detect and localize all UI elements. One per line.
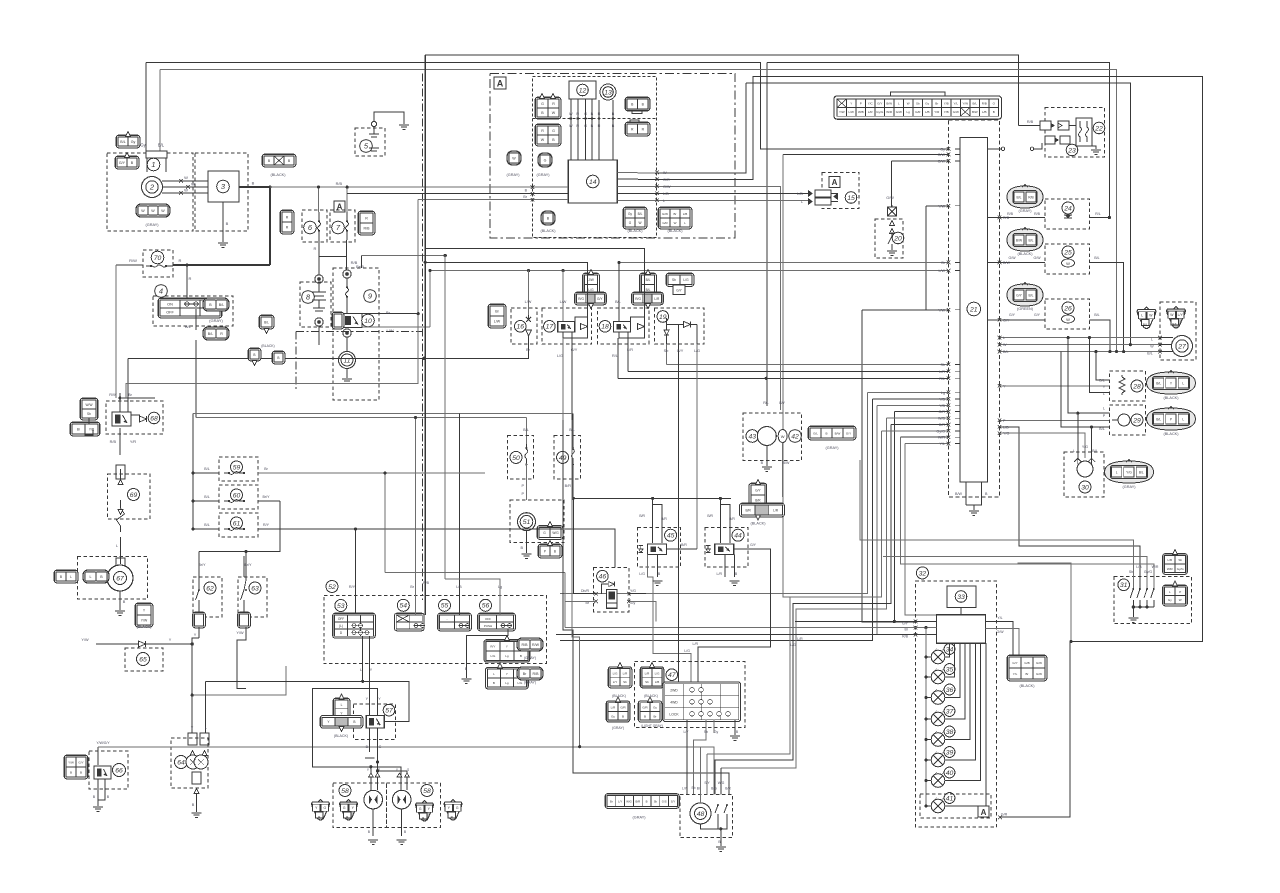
connector hl inner L	[340, 800, 358, 821]
term Y ecuR	[998, 384, 1002, 388]
svg-text:Y/G: Y/G	[1126, 471, 1132, 475]
lamp number 34	[944, 644, 955, 655]
term G/W rowR	[655, 185, 659, 189]
wire comp6 down	[318, 240, 320, 275]
wire W/B row	[886, 417, 948, 419]
capacitor element	[318, 283, 320, 292]
svg-text:20: 20	[893, 235, 902, 242]
term Y/L ecu	[947, 442, 951, 446]
svg-text:R: R	[189, 276, 192, 281]
bullet conn b	[315, 318, 323, 326]
svg-text:L: L	[801, 200, 803, 204]
connector 47 gray1	[606, 701, 630, 722]
wire 22 link	[1069, 125, 1076, 127]
wire BR bus	[573, 497, 731, 499]
dashed box comp66	[89, 751, 128, 789]
joint connector 17	[583, 273, 600, 296]
svg-text:26: 26	[1063, 305, 1072, 312]
dashed box comp27	[1160, 302, 1196, 360]
wire 66 gnd a	[97, 779, 99, 806]
term 46d	[627, 600, 631, 604]
wire Br row14	[418, 199, 568, 201]
svg-text:B/L: B/L	[1147, 352, 1152, 356]
wire 44 B	[734, 554, 736, 577]
wire 12 B	[591, 99, 593, 160]
wire 69 out	[120, 537, 122, 564]
dashed box comp30	[1064, 452, 1104, 497]
relay 45 box	[648, 544, 667, 554]
svg-text:L/B: L/B	[456, 585, 462, 589]
junction Br 10	[417, 312, 420, 315]
comp22 plug a	[1040, 121, 1051, 130]
wire R comp70 out	[173, 264, 270, 266]
fuse wiggle 69	[117, 500, 125, 532]
lamp number 39	[944, 747, 955, 758]
svg-text:60: 60	[233, 492, 241, 499]
wire RY row2	[258, 529, 615, 567]
svg-text:A: A	[981, 808, 987, 817]
svg-text:L/W: L/W	[938, 269, 945, 273]
pin Gy/G ecu	[955, 430, 960, 432]
junction Y 65	[191, 642, 194, 645]
comp48 motor	[690, 803, 711, 824]
svg-text:Gy: Gy	[628, 212, 632, 216]
wire BrY row	[199, 555, 244, 557]
junction R node	[268, 186, 271, 189]
svg-text:P: P	[860, 102, 862, 106]
svg-text:Y/W: Y/W	[938, 204, 945, 208]
wire aux 695 line	[192, 666, 286, 695]
pin Y/W ecu	[955, 205, 960, 207]
arrow 51	[548, 522, 553, 527]
svg-text:40: 40	[946, 770, 954, 777]
comp29 sensor	[1118, 414, 1130, 426]
svg-text:R/B: R/B	[110, 440, 117, 444]
wire 56 Lg	[445, 579, 500, 615]
junction G hl	[376, 760, 379, 763]
svg-text:L/B: L/B	[1136, 565, 1142, 569]
svg-text:L/W: L/W	[386, 328, 393, 333]
svg-text:L/W: L/W	[494, 320, 501, 324]
fuse band 69b	[116, 558, 125, 572]
front brake switch 62	[204, 582, 216, 594]
arrow bsmall1	[252, 361, 257, 366]
svg-text:Y/L: Y/L	[939, 442, 945, 446]
connector 56 gray2	[486, 667, 529, 689]
svg-text:Gy: Gy	[131, 140, 136, 144]
svg-text:Lg: Lg	[907, 110, 911, 114]
svg-text:G/Y: G/Y	[902, 622, 909, 626]
svg-text:ON: ON	[167, 303, 173, 307]
starter relay 10	[342, 314, 362, 328]
arrow j17b	[589, 304, 594, 309]
junction pin12 0	[570, 117, 573, 120]
svg-text:R: R	[552, 102, 555, 106]
wire G/W row1	[783, 154, 948, 156]
svg-text:W: W	[638, 221, 641, 225]
wire 46 Gy out	[629, 602, 656, 622]
wire LG out17	[562, 338, 564, 420]
svg-text:G/Y: G/Y	[750, 543, 757, 547]
fuse 7	[332, 221, 345, 234]
relay 57 box	[366, 715, 384, 728]
cap gnd sym	[313, 307, 325, 309]
switch grid 54	[395, 613, 425, 631]
switch grid 56	[478, 613, 516, 631]
svg-text:W: W	[512, 156, 516, 160]
svg-text:B/W: B/W	[835, 432, 841, 436]
comp46 loop	[602, 584, 609, 594]
dashed box comp8	[300, 282, 331, 327]
svg-text:15: 15	[847, 195, 855, 202]
comp25 lamp	[1062, 259, 1075, 267]
svg-text:G/R: G/R	[938, 410, 945, 414]
junction lamp37	[924, 717, 927, 720]
dashed box comp4 main switch	[153, 296, 233, 326]
wire lamp bus	[925, 628, 927, 805]
bullet conn a	[315, 275, 323, 283]
connector YR stack	[80, 398, 98, 420]
wire lamp41 right	[945, 643, 986, 806]
pin G/W ecu	[955, 160, 960, 162]
svg-text:R/B: R/B	[1028, 196, 1034, 200]
switch grid 47	[663, 682, 741, 722]
svg-text:Br: Br	[610, 800, 613, 804]
comp46 relay	[607, 590, 617, 609]
svg-text:G/Y: G/Y	[676, 289, 682, 293]
svg-text:B/L: B/L	[1143, 323, 1148, 327]
relay 10	[362, 314, 375, 327]
comp63 sw	[244, 580, 246, 590]
arrow 57a	[339, 694, 344, 699]
tail brake light 64	[175, 756, 188, 769]
fuse band 69a	[116, 465, 125, 479]
svg-text:R/B: R/B	[982, 102, 987, 106]
wire comp3 gnd	[222, 202, 224, 242]
term G/W ecu	[947, 159, 951, 163]
svg-text:B/L: B/L	[204, 523, 209, 527]
connector gray 14b	[538, 153, 552, 167]
svg-text:L/B: L/B	[982, 110, 987, 114]
wire L 64	[205, 681, 207, 734]
svg-text:W: W	[184, 175, 188, 180]
connector 51	[537, 526, 563, 540]
dashed box magneto	[107, 153, 193, 231]
lights switch 53	[335, 600, 347, 612]
wire m2	[916, 627, 937, 629]
junction BrB	[444, 254, 447, 257]
svg-text:B/W: B/W	[886, 102, 892, 106]
svg-text:B/L: B/L	[1003, 350, 1009, 354]
junction LW 17	[562, 269, 565, 272]
svg-text:W/B: W/B	[858, 110, 864, 114]
svg-text:W: W	[541, 138, 545, 142]
svg-text:Br: Br	[674, 212, 677, 216]
wire G/R drop	[894, 412, 915, 622]
wire BL bus h1	[193, 412, 573, 414]
svg-text:B: B	[60, 575, 62, 579]
wire lamp37 right	[945, 643, 965, 719]
contact b	[1030, 147, 1033, 150]
junction pin12 2	[584, 117, 587, 120]
wire Lg row	[868, 391, 949, 393]
term L ecuR	[998, 336, 1002, 340]
fuse element 61	[224, 528, 244, 531]
svg-text:Y/W: Y/W	[81, 638, 89, 642]
starter relay num 68	[148, 412, 160, 424]
svg-text:L/R: L/R	[868, 110, 874, 114]
wire RW row68	[122, 397, 155, 399]
term 27c	[1158, 350, 1162, 354]
wire 45 LG	[648, 554, 654, 621]
dashed box comp25	[1045, 244, 1090, 274]
connector 47 black2	[640, 667, 664, 688]
wire Br out	[362, 313, 418, 315]
A label comp15	[829, 177, 840, 188]
connector meter black	[1007, 655, 1047, 681]
wire 63 down	[237, 627, 246, 688]
wire 50 P out	[525, 464, 527, 501]
svg-text:B/W: B/W	[1003, 261, 1010, 265]
svg-text:Y/W: Y/W	[68, 761, 74, 765]
svg-text:L: L	[360, 668, 362, 672]
wire 59 feed	[193, 472, 219, 474]
dashed box comp24	[1045, 199, 1090, 229]
wire Br handlebar	[385, 572, 565, 574]
dashed box comp57	[354, 704, 396, 739]
svg-text:(BLACK): (BLACK)	[751, 522, 767, 526]
headlight left 58	[339, 785, 351, 797]
connector B small1	[248, 348, 261, 361]
svg-text:Y/R: Y/R	[934, 110, 940, 114]
wire Sb out19	[666, 344, 668, 364]
wire RW to right	[127, 393, 129, 398]
svg-text:G/Y: G/Y	[779, 401, 786, 405]
svg-text:(GRAY): (GRAY)	[524, 681, 536, 685]
connector black 25	[1007, 228, 1043, 252]
indicator lamp 41	[931, 799, 945, 813]
svg-text:10: 10	[364, 318, 372, 325]
svg-text:R: R	[598, 112, 601, 116]
dashed box comp50	[507, 435, 533, 479]
svg-text:W: W	[161, 209, 165, 213]
svg-text:Y/R: Y/R	[89, 428, 95, 432]
svg-text:G/B: G/B	[1024, 661, 1029, 665]
pin Br ecu	[955, 262, 960, 264]
connector 56 oval2	[517, 667, 543, 680]
wire L/R row	[628, 370, 948, 372]
2WD relay 44	[732, 529, 744, 541]
svg-text:Sb: Sb	[1178, 558, 1182, 562]
starter relay 68	[112, 412, 131, 426]
arrow 47b	[650, 663, 655, 668]
svg-text:29: 29	[1132, 417, 1141, 424]
svg-text:Sb: Sb	[654, 800, 658, 804]
fuse 22	[1093, 122, 1105, 134]
pin Y/B ecu	[955, 404, 960, 406]
connector GY tail	[673, 285, 685, 295]
wire Br row	[619, 262, 949, 264]
diode 65	[137, 653, 150, 666]
wire c11 down	[346, 337, 348, 352]
svg-text:G/W: G/W	[938, 153, 946, 157]
dashed box comp62	[193, 577, 222, 617]
svg-text:(BLACK): (BLACK)	[612, 694, 626, 698]
term P ecuR	[998, 419, 1002, 423]
wire BL comp4 down	[195, 340, 197, 418]
junction 45 feed	[651, 497, 654, 500]
term R/L ecu	[947, 377, 951, 381]
svg-text:Sb: Sb	[87, 412, 91, 416]
arrow conn1	[126, 132, 131, 137]
svg-text:L: L	[1003, 336, 1005, 340]
svg-text:52: 52	[328, 584, 336, 591]
speedo assembly 43	[746, 430, 759, 443]
svg-text:(BLACK): (BLACK)	[271, 173, 287, 177]
wire 45 B	[656, 554, 658, 577]
comp13 outer	[600, 84, 616, 100]
wire 44 feed3	[730, 498, 732, 504]
wire 45 out	[667, 548, 698, 550]
svg-text:14: 14	[589, 179, 597, 186]
svg-text:W: W	[781, 434, 785, 439]
svg-text:Br: Br	[386, 310, 391, 315]
wire W bus top	[746, 83, 1131, 345]
wire L row	[998, 337, 1160, 339]
wire BrY link	[199, 501, 276, 556]
svg-text:25: 25	[1063, 249, 1072, 256]
svg-text:B/L: B/L	[264, 321, 269, 325]
junction BL 4	[1122, 350, 1125, 353]
start switch 55	[439, 599, 451, 611]
wire 46 YG out	[629, 593, 646, 595]
dashed box comp22	[1045, 108, 1105, 157]
svg-text:P: P	[1179, 590, 1181, 594]
main fuse 70	[151, 251, 164, 264]
svg-text:B/L: B/L	[646, 278, 651, 282]
starter motor 67	[114, 572, 127, 585]
svg-text:L/R: L/R	[797, 637, 803, 641]
svg-text:G/S: G/S	[662, 800, 667, 804]
svg-text:R/B: R/B	[336, 182, 343, 186]
junction lamp40	[924, 779, 927, 782]
A label mid	[334, 201, 345, 212]
arrow bl31	[264, 329, 269, 334]
arrow 56g2	[498, 663, 503, 668]
svg-text:45: 45	[667, 533, 675, 540]
svg-text:56: 56	[482, 603, 490, 610]
svg-text:PUSH: PUSH	[484, 624, 492, 628]
svg-text:R/B: R/B	[423, 581, 430, 585]
headlamp L	[364, 790, 383, 809]
svg-text:Lg: Lg	[505, 654, 509, 658]
term B/W ecuR	[998, 261, 1002, 265]
svg-text:(BLACK): (BLACK)	[541, 229, 557, 233]
spark plug 13	[603, 87, 614, 98]
wire RB drop comp7	[346, 187, 348, 212]
connector Br YR	[70, 422, 100, 436]
wire lamp36 right	[945, 643, 960, 697]
svg-text:B/L: B/L	[1094, 256, 1099, 260]
svg-text:W/W: W/W	[86, 403, 93, 407]
dashed box comp20	[875, 219, 903, 258]
wire comp49 feed	[572, 413, 574, 450]
junction lamp38	[924, 738, 927, 741]
svg-text:Y/W: Y/W	[141, 619, 148, 623]
wire Sb row	[667, 363, 949, 365]
relay 66 box	[94, 766, 111, 779]
wire G/W to lean switch	[891, 161, 893, 207]
svg-text:Sb: Sb	[664, 349, 669, 353]
comp22 plug b	[1058, 121, 1069, 130]
connector Br-LW	[488, 304, 506, 328]
wire B stub	[966, 482, 982, 505]
svg-text:Gy: Gy	[940, 148, 945, 152]
svg-text:Y/C: Y/C	[868, 102, 874, 106]
svg-text:(BLACK): (BLACK)	[334, 734, 348, 738]
svg-text:G/Y: G/Y	[846, 432, 851, 436]
fuse 9	[364, 290, 377, 303]
svg-text:R/W: R/W	[532, 643, 540, 647]
wire ecu ign	[988, 148, 1002, 150]
svg-text:L: L	[1073, 449, 1075, 453]
svg-text:32: 32	[919, 570, 927, 577]
wire R to relay18	[425, 249, 644, 317]
svg-text:L/G: L/G	[694, 349, 700, 353]
svg-text:B: B	[493, 681, 495, 685]
dashed box comp44	[705, 527, 748, 567]
junction lamp39	[924, 758, 927, 761]
connector comp6	[280, 210, 294, 234]
svg-text:23: 23	[1067, 147, 1076, 154]
svg-text:B/L: B/L	[1156, 418, 1161, 422]
svg-text:18: 18	[601, 324, 609, 331]
wire lamp35 left	[926, 676, 931, 678]
term G/Y ecuR	[998, 318, 1002, 322]
connector Sb-LG pair	[666, 273, 694, 286]
svg-text:Db/R: Db/R	[581, 589, 589, 593]
connector 57 tri v	[333, 698, 350, 719]
svg-text:B/L: B/L	[208, 332, 213, 336]
svg-text:G/W: G/W	[1009, 256, 1017, 260]
svg-text:R: R	[286, 216, 289, 220]
fuse element 6	[318, 212, 321, 240]
ground comp23	[1091, 150, 1101, 154]
wire lamp37 left	[926, 718, 931, 720]
wire Y/W bracket2	[926, 309, 949, 311]
svg-text:24: 24	[1063, 205, 1072, 212]
wire hl R gnd	[401, 809, 403, 836]
connector main sw	[203, 298, 229, 311]
connector 48 strip	[605, 794, 679, 809]
wire GR row14b	[617, 178, 657, 180]
svg-text:G: G	[456, 806, 459, 810]
junction comp70 R	[185, 263, 188, 266]
dashed box comp18	[598, 308, 649, 344]
rectifier regulator 3	[217, 180, 230, 193]
svg-text:Sb: Sb	[916, 102, 920, 106]
svg-text:B/L: B/L	[158, 143, 165, 148]
wire 33 link	[960, 607, 962, 614]
relay57 loop	[358, 712, 366, 719]
svg-text:B: B	[192, 803, 195, 807]
wire 48 br	[700, 747, 702, 803]
svg-text:41: 41	[946, 795, 954, 802]
svg-text:G/W: G/W	[1036, 672, 1042, 676]
dashed box headlight R	[386, 783, 440, 827]
term G/R ecu	[947, 410, 951, 414]
junction 68a	[118, 396, 121, 399]
